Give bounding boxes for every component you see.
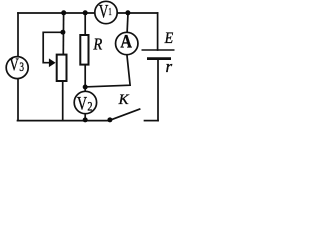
wire bottom — [18, 120, 111, 122]
wire switch contact — [145, 120, 159, 122]
node dot R bottom — [83, 85, 88, 90]
battery plate long (E) — [142, 49, 175, 51]
svg-text:A: A — [120, 31, 132, 52]
wire right upper — [157, 13, 159, 50]
battery plate short thick — [147, 57, 171, 60]
svg-text:1: 1 — [108, 6, 111, 18]
voltmeter V3 — [6, 55, 28, 79]
wire top — [18, 12, 158, 14]
switch pivot dot — [107, 117, 112, 122]
voltmeter V2 — [74, 91, 96, 114]
rheostat (potentiometer) — [57, 55, 67, 81]
svg-text:2: 2 — [87, 98, 92, 113]
node dot wiper branch — [60, 30, 65, 35]
node dot R top — [83, 10, 88, 15]
wire right lower — [157, 60, 159, 121]
svg-text:V: V — [9, 55, 18, 75]
voltmeter V1 — [95, 1, 117, 23]
resistor R — [80, 35, 88, 65]
svg-text:K: K — [118, 92, 130, 108]
wire A bottom — [85, 55, 130, 87]
rheostat slider arrow — [49, 58, 56, 67]
svg-text:3: 3 — [19, 60, 24, 74]
svg-text:E: E — [164, 30, 174, 47]
svg-text:r: r — [166, 57, 173, 76]
svg-text:R: R — [93, 35, 103, 54]
svg-text:V: V — [99, 3, 109, 23]
wire rheostat bottom — [62, 82, 64, 121]
wire A top — [126, 13, 129, 33]
wire left — [17, 13, 19, 121]
node dot A top — [125, 10, 130, 15]
wire R bottom — [84, 65, 86, 120]
switch K blade — [110, 109, 140, 120]
node dot rheostat top — [61, 10, 66, 15]
svg-text:V: V — [77, 93, 87, 114]
ammeter A — [116, 31, 138, 54]
wire rheostat top branch — [62, 13, 64, 54]
node dot V2 bottom — [83, 117, 88, 122]
wire R top branch — [84, 13, 86, 34]
wire wiper branch — [43, 32, 63, 62]
